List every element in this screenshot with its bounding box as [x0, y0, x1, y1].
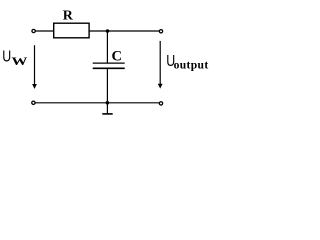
wire capacitor bottom lead: [106, 68, 108, 103]
svg-text:U: U: [2, 47, 11, 65]
svg-text:output: output: [174, 59, 209, 72]
junction top node: [106, 29, 110, 33]
label U_output: [166, 52, 208, 72]
label U_W: [2, 47, 27, 68]
svg-text:W: W: [11, 56, 27, 68]
wire top-left segment: [36, 30, 54, 32]
arrow U_W voltage: [32, 45, 37, 89]
node top-right terminal: [159, 30, 162, 33]
wire ground stub: [106, 103, 108, 114]
arrow U_output voltage: [158, 41, 163, 89]
wire bottom: [35, 102, 159, 104]
ground: [102, 113, 112, 115]
node bottom-right terminal: [159, 102, 162, 105]
wire top-right segment: [89, 30, 159, 32]
junction bottom node: [106, 101, 110, 105]
svg-text:C: C: [112, 49, 122, 65]
wire capacitor top lead: [106, 31, 108, 63]
resistor R: [54, 9, 89, 38]
node top-left terminal: [32, 29, 35, 32]
svg-text:R: R: [63, 9, 74, 24]
node bottom-left terminal: [32, 101, 35, 104]
capacitor C: [93, 49, 125, 69]
